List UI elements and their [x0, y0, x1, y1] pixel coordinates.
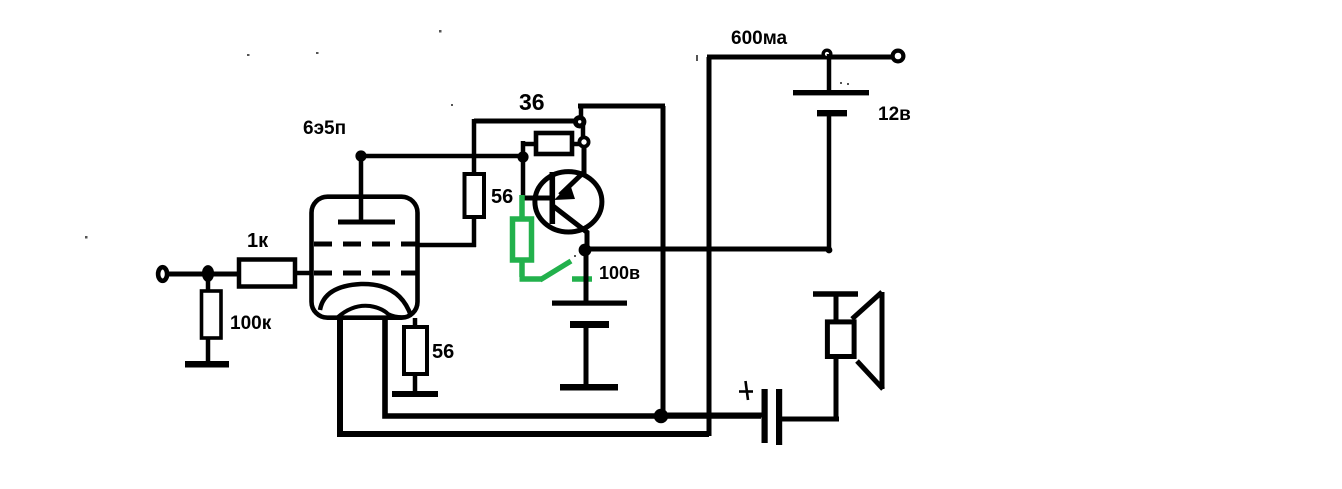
grid 1 dashed line [314, 271, 417, 276]
tube left leg wire [340, 318, 709, 434]
node circle A [576, 118, 584, 126]
battery B2 12в [793, 54, 869, 252]
resistor R4 56 (screen) [465, 119, 485, 247]
speaker LS1 top stub [834, 294, 839, 321]
node dot at battery stem [826, 247, 833, 254]
transistor Q1 emitter diagonal [553, 206, 588, 233]
wire tube grid2 to R4 [418, 243, 476, 248]
speaker LS1 bottom stub [834, 357, 839, 419]
transistor Q1 arrowhead [554, 184, 575, 200]
right riser to top wire [707, 57, 712, 436]
svg-text:56: 56 [432, 341, 454, 363]
node dot plate/base junction [517, 151, 528, 162]
svg-text:6э5п: 6э5п [303, 118, 346, 139]
transistor Q1 base bar [550, 172, 556, 224]
vertical collector feed wire [661, 106, 666, 413]
stray speck marks [85, 30, 849, 257]
speaker LS1 horn top diagonal [852, 292, 882, 319]
junction dot bottom bus [654, 409, 668, 423]
speaker LS1 box [827, 322, 854, 357]
speaker LS1 top bar [813, 291, 858, 296]
terminal output circle [893, 51, 904, 62]
grid 2 dashed line [314, 242, 417, 247]
svg-text:1к: 1к [247, 230, 269, 252]
resistor R3 small horizontal [523, 133, 581, 154]
ground for R5 [392, 391, 438, 397]
capacitor C1 left plate [762, 389, 768, 443]
resistor R2 100к [202, 278, 222, 363]
svg-text:100к: 100к [230, 313, 272, 334]
wire anode to base network [361, 154, 523, 159]
green switch contact [572, 276, 592, 281]
speaker LS1 horn mouth vertical [880, 292, 885, 389]
svg-text:36: 36 [519, 89, 545, 115]
svg-text:56: 56 [491, 186, 513, 208]
anode plate bar [338, 220, 395, 225]
heater inner curve [338, 306, 406, 317]
svg-text:12в: 12в [878, 104, 911, 125]
green switch blade [540, 261, 571, 280]
node dot emitter junction [579, 244, 592, 257]
wire R1 to tube grid [295, 271, 312, 276]
svg-text:600ма: 600ма [731, 28, 788, 49]
wire input to node [167, 272, 240, 277]
transistor Q1 collector lead [582, 145, 587, 174]
anode node dot [355, 150, 366, 161]
input terminal J1 [158, 267, 167, 281]
vacuum tube V1 6э5п envelope [312, 197, 418, 318]
ground for R2 [185, 361, 229, 368]
wire top to R4 [474, 119, 580, 124]
ground for B1 [560, 384, 618, 391]
svg-text:100в: 100в [599, 263, 640, 283]
resistor R1 1к [239, 260, 295, 287]
transistor Q1 base wire [521, 196, 551, 201]
transistor Q1 collector diagonal [560, 172, 584, 195]
tube right leg wire [385, 318, 761, 416]
anode lead wire [359, 155, 364, 222]
node circle B [579, 137, 588, 146]
capacitor C1 left wire [663, 413, 762, 418]
cathode dome curve [320, 284, 411, 316]
top wire 36 net [578, 104, 665, 109]
capacitor C1 plus sign [739, 381, 753, 400]
transistor Q1 circle [535, 172, 602, 232]
stub A to B [581, 124, 586, 139]
top supply wire 600ма [707, 55, 897, 60]
resistor R5 56 (cathode) [404, 318, 427, 392]
green resistor R6 [513, 195, 543, 279]
speaker LS1 horn bottom diagonal [857, 361, 883, 389]
battery B1 100в [552, 253, 627, 386]
emitter bus wire [585, 247, 831, 252]
transistor Q1 emitter lead [585, 231, 590, 247]
capacitor C1 right plate [776, 389, 782, 445]
capacitor C1 right wire [782, 417, 839, 422]
stub to node circle A [579, 104, 584, 117]
node A junction dot [202, 265, 214, 282]
node circle on top wire [823, 50, 831, 58]
base feed vertical wire [521, 141, 526, 197]
